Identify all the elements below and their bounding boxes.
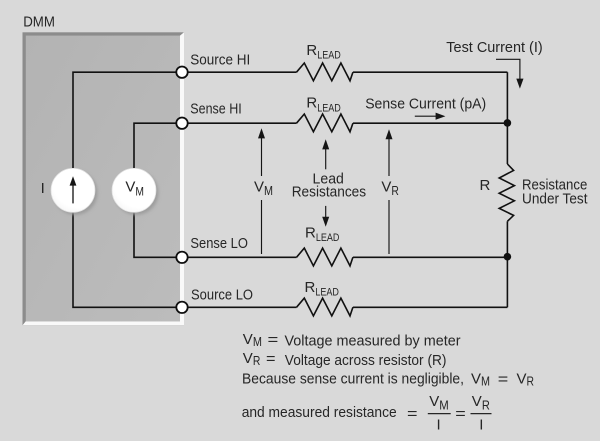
svg-text:I: I — [479, 417, 483, 434]
svg-text:and measured resistance: and measured resistance — [242, 404, 397, 421]
wire Sense HI right — [353, 122, 508, 124]
arrow Lead Resistances up — [322, 139, 329, 169]
wire Sense HI inside DMM — [134, 123, 182, 168]
svg-text:Sense HI: Sense HI — [190, 101, 241, 118]
equation line 4 — [242, 393, 492, 434]
arrow VR — [386, 129, 393, 254]
arrow Sense Current — [415, 113, 446, 120]
svg-text:VM: VM — [243, 331, 262, 349]
wire right rail top — [506, 72, 508, 164]
wire Source LO — [188, 306, 297, 308]
arrow VM — [258, 128, 265, 254]
voltmeter VM — [112, 168, 158, 215]
svg-text:I: I — [437, 417, 441, 434]
equation line 3 — [242, 370, 534, 388]
svg-text:=: = — [498, 371, 509, 388]
svg-text:VR: VR — [243, 350, 261, 368]
svg-text:Voltage across resistor (R): Voltage across resistor (R) — [285, 352, 447, 369]
svg-text:Sense LO: Sense LO — [190, 235, 248, 252]
terminal Sense HI — [176, 118, 187, 129]
terminal Sense LO — [176, 252, 187, 263]
DMM enclosure — [23, 32, 185, 325]
resistor R — [499, 164, 514, 221]
wire Source LO right — [353, 306, 508, 308]
wire Source LO inside DMM — [73, 212, 182, 307]
svg-text:I: I — [41, 180, 45, 197]
svg-text:=: = — [407, 405, 418, 422]
wire Sense HI — [188, 122, 297, 124]
wire Source HI inside DMM — [73, 72, 182, 168]
svg-text:Resistances: Resistances — [292, 184, 366, 201]
svg-text:Because sense current is negli: Because sense current is negligible, — [242, 370, 464, 387]
wire right rail bottom — [506, 221, 508, 307]
wire Sense LO — [188, 256, 297, 258]
equation line 2 — [243, 350, 447, 369]
wire Source HI — [188, 71, 297, 73]
resistor RLEAD Source LO — [297, 279, 353, 316]
svg-text:Source LO: Source LO — [191, 287, 253, 304]
equation line 1 — [243, 331, 461, 350]
terminal Source HI — [176, 67, 187, 78]
svg-text:R: R — [480, 177, 491, 194]
svg-text:=: = — [455, 405, 466, 422]
svg-text:Test Current (I): Test Current (I) — [446, 39, 542, 56]
resistor RLEAD Source HI — [297, 42, 353, 81]
node Sense HI junction — [504, 119, 512, 127]
svg-text:Sense Current (pA): Sense Current (pA) — [365, 96, 486, 113]
svg-text:VM: VM — [471, 370, 490, 388]
arrow Lead Resistances down — [322, 206, 329, 227]
svg-text:=: = — [268, 332, 279, 349]
wire Source HI right — [353, 71, 508, 73]
resistor RLEAD Sense LO — [297, 225, 353, 266]
svg-text:Under Test: Under Test — [522, 190, 588, 207]
svg-text:Source HI: Source HI — [190, 51, 250, 68]
wire Sense LO inside DMM — [134, 212, 182, 257]
current source I — [51, 168, 97, 215]
svg-text:VR: VR — [517, 370, 535, 388]
resistor RLEAD Sense HI — [297, 95, 353, 132]
terminal Source LO — [176, 302, 187, 313]
node Sense LO junction — [504, 253, 512, 261]
svg-text:DMM: DMM — [23, 14, 55, 31]
wire Sense LO right — [353, 256, 508, 258]
svg-text:Voltage measured by meter: Voltage measured by meter — [285, 333, 461, 350]
arrow Test Current — [496, 59, 524, 88]
svg-text:=: = — [266, 351, 276, 368]
